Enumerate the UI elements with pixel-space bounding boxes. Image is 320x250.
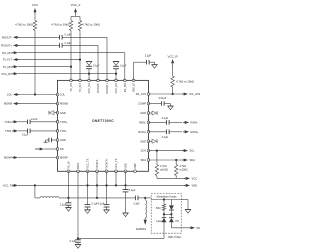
svg-text:SDA: SDA <box>141 158 147 162</box>
svg-text:LOL: LOL <box>7 93 13 97</box>
capacitor C14 0.1uF <box>85 203 99 210</box>
resistor R1 4.7k-10k pullup <box>15 21 37 31</box>
svg-text:TX_FLT: TX_FLT <box>78 82 82 92</box>
wire TX_DIS <box>18 66 72 81</box>
svg-text:RXOUT-: RXOUT- <box>2 35 12 39</box>
capacitor C16 0.1uF <box>123 189 136 213</box>
node SDA <box>182 158 195 162</box>
svg-text:0.1µF: 0.1µF <box>120 65 127 68</box>
svg-text:2.2µF: 2.2µF <box>60 203 67 206</box>
wire junction row <box>163 210 173 215</box>
svg-text:TX_FLT: TX_FLT <box>2 58 12 62</box>
node RXOUT+ <box>1 44 19 48</box>
node RXIN- <box>183 121 198 125</box>
wire VCC to R1 <box>34 15 36 21</box>
wire R2 to TX_DIS line <box>70 31 72 67</box>
svg-text:EN/BIAS: EN/BIAS <box>136 228 146 231</box>
svg-text:GND: GND <box>140 111 146 115</box>
svg-text:TXIN-: TXIN- <box>5 129 12 133</box>
wire VCC_RX pin3 <box>88 74 90 81</box>
ground above C4 <box>0 0 1 1</box>
node TXIN+ <box>4 120 18 124</box>
capacitor C7 0.1uF <box>22 129 30 137</box>
capacitor C15 0.1uF <box>98 203 110 210</box>
svg-text:0.1µF: 0.1µF <box>98 203 105 206</box>
node RX_LOS <box>182 92 200 96</box>
label Modulation Anode <box>156 196 177 200</box>
svg-text:VCC_RX: VCC_RX <box>87 83 91 94</box>
pin circles of U1 <box>56 79 150 173</box>
power symbol VCC_R <box>168 55 179 66</box>
wire RXIN- <box>149 121 183 123</box>
svg-text:0.1µF: 0.1µF <box>70 240 77 243</box>
svg-text:Modulation Anode: Modulation Anode <box>156 196 177 199</box>
wire laser cathode <box>163 222 165 238</box>
node VCC_TX <box>3 184 18 188</box>
svg-text:0.1µF: 0.1µF <box>65 42 72 45</box>
node RXOUT- <box>2 35 19 39</box>
node LOL <box>7 93 19 97</box>
wire VCC_TX pin6 v <box>115 171 117 185</box>
pin name labels of U1 <box>60 82 146 168</box>
wire TX_FLT <box>18 58 81 80</box>
svg-text:RXIN-: RXIN- <box>139 121 146 125</box>
ground at C5 <box>149 62 157 68</box>
svg-text:MONB: MONB <box>4 102 12 106</box>
svg-text:SCL: SCL <box>190 149 196 153</box>
ground at C9 <box>164 104 173 110</box>
node SCL <box>182 149 195 153</box>
svg-text:VCC: VCC <box>32 3 39 7</box>
svg-text:MONP: MONP <box>4 156 12 160</box>
wire TXOUT+ pin v <box>106 171 108 204</box>
svg-text:PD: PD <box>197 227 201 230</box>
svg-text:AMP: AMP <box>133 163 137 169</box>
ground TOSA <box>181 200 191 214</box>
wire TXOUT- pin v <box>96 171 98 199</box>
svg-text:VCC_TX: VCC_TX <box>86 158 90 169</box>
capacitor C3 0.1uF decoupling <box>86 62 100 74</box>
wire cap to TOSA <box>138 197 151 199</box>
svg-text:VCC_RX: VCC_RX <box>1 72 12 76</box>
ground at C16 <box>123 213 129 217</box>
wire BIAS pin down <box>77 171 79 239</box>
svg-text:4.7kΩ to 10kΩ: 4.7kΩ to 10kΩ <box>15 23 33 27</box>
svg-text:0.1µF: 0.1µF <box>31 118 38 121</box>
wire rail <box>59 197 135 199</box>
ground at C15 <box>104 210 110 214</box>
wire SDA <box>149 159 184 161</box>
capacitor C1 0.1uF <box>60 34 72 40</box>
svg-text:TXIN+: TXIN+ <box>60 120 68 124</box>
svg-text:Laser: Laser <box>156 220 162 223</box>
svg-text:TX_DIS: TX_DIS <box>3 65 13 69</box>
node TXIN- <box>5 129 18 133</box>
capacitor C5 2.2uF <box>145 55 152 65</box>
svg-text:2.2µF: 2.2µF <box>145 55 152 58</box>
capacitor C10 0.1uF <box>162 117 169 125</box>
node PD output <box>189 226 200 230</box>
svg-text:to10kΩ: to10kΩ <box>180 169 188 172</box>
photodiode D3 <box>169 214 179 223</box>
wire R1 to LOL line <box>34 31 36 95</box>
svg-text:RX_DIS: RX_DIS <box>123 83 127 93</box>
wire pullup rail VCC <box>157 176 185 179</box>
wire VCC_RX pin6 <box>115 74 117 81</box>
node VCC <box>184 177 197 181</box>
ground at C14 <box>85 210 91 214</box>
wire R3 to TX_FLT line <box>79 31 81 60</box>
svg-text:0.1µF: 0.1µF <box>22 134 29 137</box>
svg-text:ONET7000C: ONET7000C <box>92 119 114 123</box>
svg-text:TX_ON: TX_ON <box>69 83 73 92</box>
wire R4 to LOS line <box>171 87 173 95</box>
svg-text:0.1µF: 0.1µF <box>129 189 136 192</box>
svg-text:3.3µF: 3.3µF <box>133 202 140 205</box>
resistor R7 50ohm <box>156 200 166 211</box>
node TX_FLT <box>2 58 18 62</box>
wire TXIN- <box>18 130 58 132</box>
wire RX_DIS <box>18 53 125 81</box>
resistor R5 4.7k-10k pullup SCK <box>155 151 168 176</box>
wire TXIN+ <box>18 121 58 123</box>
wire VDD pin v <box>125 171 127 189</box>
wire VCC_RX rail <box>18 73 117 75</box>
svg-text:4.7kΩ: 4.7kΩ <box>180 165 187 168</box>
wire MONB <box>18 103 58 105</box>
capacitor C13 0.1uF bias <box>70 238 81 244</box>
capacitor C6 0.1uF <box>28 118 38 124</box>
resistor R3 4.7k-10k <box>78 17 100 31</box>
svg-text:4.7kΩ to 10kΩ: 4.7kΩ to 10kΩ <box>176 80 194 84</box>
node VCC_RX <box>1 72 18 76</box>
svg-text:4.7kΩ to 10kΩ: 4.7kΩ to 10kΩ <box>82 23 100 27</box>
svg-text:RX_LOS: RX_LOS <box>190 92 201 96</box>
svg-text:VCC_TX: VCC_TX <box>114 158 118 169</box>
svg-text:RXIN+: RXIN+ <box>138 130 146 134</box>
wire BW_SEL pin to C5 <box>134 62 147 80</box>
ground at GND pin right lower <box>149 139 158 143</box>
node RXIN+ <box>183 130 199 134</box>
svg-text:PD: PD <box>35 148 39 151</box>
ground above C3 <box>0 0 1 1</box>
svg-text:GND: GND <box>60 111 66 115</box>
svg-text:RX_DIS: RX_DIS <box>2 51 12 55</box>
svg-text:0.1µF: 0.1µF <box>162 136 169 139</box>
wire RXOUT+ with coupling <box>18 45 98 80</box>
capacitor C12 2.2uF <box>60 198 72 208</box>
svg-text:TXIN-: TXIN- <box>60 129 67 133</box>
node PD input <box>35 147 44 151</box>
diode D1 <box>169 200 174 215</box>
svg-text:RXIN-: RXIN- <box>191 121 198 125</box>
wire mod line inside <box>151 198 181 200</box>
label DML TOSA <box>168 236 181 239</box>
wire PD <box>44 148 58 150</box>
wire bias to TOSA <box>78 237 164 239</box>
svg-text:4.7kΩ to 10kΩ: 4.7kΩ to 10kΩ <box>51 23 69 27</box>
wire VCC_TX pin3 v <box>87 171 89 204</box>
wire drop to ferrite <box>35 185 40 198</box>
svg-text:RXOUT+: RXOUT+ <box>1 44 12 48</box>
svg-text:RXIN+: RXIN+ <box>191 130 199 134</box>
svg-text:VDD: VDD <box>124 163 128 169</box>
svg-text:TXOUT-: TXOUT- <box>95 159 99 169</box>
svg-text:GND: GND <box>140 139 146 143</box>
svg-text:DML TOSA: DML TOSA <box>168 236 181 239</box>
svg-text:TXIN+: TXIN+ <box>4 120 12 124</box>
svg-text:PD: PD <box>60 147 64 151</box>
node RX_DIS <box>2 51 18 55</box>
svg-text:RXOUT-: RXOUT- <box>96 83 100 93</box>
wire MONP <box>18 157 58 159</box>
resistor R6 4.7k-10k pullup SDA <box>175 160 188 176</box>
svg-text:PD: PD <box>175 220 179 223</box>
ground at GND pin left <box>49 111 58 115</box>
capacitor C8 on CAZ pin <box>44 138 58 143</box>
svg-text:TXOUT+: TXOUT+ <box>105 158 109 169</box>
capacitor C2 0.1uF <box>60 42 72 48</box>
svg-text:BW_LF: BW_LF <box>132 82 136 91</box>
capacitor C4 0.1uF decoupling <box>113 62 127 74</box>
laser diode D2 <box>156 214 166 223</box>
node MONP <box>4 156 18 160</box>
svg-text:TX_LF: TX_LF <box>67 161 71 169</box>
svg-text:VCC: VCC <box>192 177 198 181</box>
wire VCC_F tee <box>71 15 80 17</box>
svg-text:0.01µF: 0.01µF <box>159 97 167 100</box>
svg-text:4.7kΩ: 4.7kΩ <box>160 165 167 168</box>
capacitor C17 3.3uF series <box>133 196 140 206</box>
svg-text:VCC_RX: VCC_RX <box>114 83 118 94</box>
svg-text:SDA: SDA <box>190 158 196 162</box>
capacitor C11 0.1uF <box>162 130 169 140</box>
wire SCK <box>149 149 184 151</box>
wire PD out <box>171 222 190 228</box>
resistor R2 4.7k-10k <box>51 17 72 31</box>
wire TX_P pin to rail <box>68 171 70 198</box>
power symbol VCC <box>32 3 39 15</box>
svg-text:SCK: SCK <box>141 149 147 153</box>
svg-text:RXOUT+: RXOUT+ <box>105 82 109 93</box>
svg-text:VCC_F: VCC_F <box>71 3 81 7</box>
ground at C12 <box>66 208 72 212</box>
TOSA dashed box <box>151 194 181 234</box>
inductor L1 ferrite bead <box>40 197 59 198</box>
op-amp U1 ONET7000C transceiver IC body <box>58 80 149 171</box>
node EN/BIAS <box>136 218 147 231</box>
wire LOL <box>18 93 58 95</box>
ground at GND pin right upper <box>149 111 158 115</box>
power symbol VCC_F <box>71 3 81 15</box>
resistor R4 4.7k-10k <box>171 76 194 87</box>
ground at C13 <box>75 245 81 249</box>
svg-text:50Ω: 50Ω <box>156 207 161 210</box>
svg-text:to10kΩ: to10kΩ <box>160 169 168 172</box>
capacitor C9 0.1uF comp <box>159 97 167 106</box>
wire VCC_R to R4 <box>172 66 174 77</box>
wire RXIN+ <box>149 131 183 133</box>
svg-text:0.1µF: 0.1µF <box>93 65 100 68</box>
svg-text:BIAS: BIAS <box>76 163 80 169</box>
node VDD <box>184 184 197 188</box>
wire LOS <box>149 93 184 95</box>
svg-text:GND: GND <box>60 138 66 142</box>
svg-text:VDD: VDD <box>192 184 198 188</box>
svg-text:LOL: LOL <box>60 93 65 97</box>
wire RXOUT- with coupling <box>18 37 107 80</box>
wire VDD line <box>18 184 185 186</box>
node MONB <box>4 102 19 106</box>
svg-text:0.1µF: 0.1µF <box>162 117 169 120</box>
svg-text:MONB: MONB <box>60 102 68 106</box>
node TX_DIS <box>3 65 18 69</box>
svg-text:MONP: MONP <box>60 156 68 160</box>
svg-text:VCC_R: VCC_R <box>168 55 179 59</box>
wire COMP <box>149 103 162 105</box>
svg-text:COMP: COMP <box>138 102 146 106</box>
svg-text:0.1µF: 0.1µF <box>65 34 72 37</box>
svg-text:RX_LOS: RX_LOS <box>136 92 147 96</box>
svg-text:VCC_TX: VCC_TX <box>3 184 14 188</box>
inductor L2 bias coil <box>145 198 147 218</box>
